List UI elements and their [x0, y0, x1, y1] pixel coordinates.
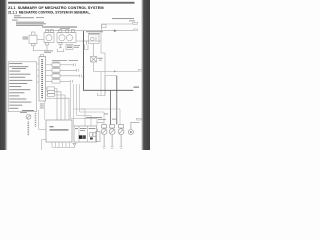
- wire G end label: [133, 22, 138, 24]
- left page-edge shadow bar: [0, 0, 8, 150]
- solenoid block labels (greeked): [75, 127, 78, 130]
- junction dot on dark wire: [83, 40, 85, 42]
- svg-text:21.1.1 MECHATRO CONTROL SYSTE: 21.1.1 MECHATRO CONTROL SYSTEM IN GENERA…: [8, 11, 91, 15]
- paragraph text block (greeked): [12, 15, 46, 26]
- wire C end label: [138, 69, 142, 71]
- accel dial label (greeked): [22, 110, 34, 111]
- outline top tab: [102, 24, 106, 27]
- controller bottom exit wires: [52, 142, 75, 147]
- attachment boost valve label (greeked): [86, 31, 103, 32]
- C-1 label: [50, 126, 54, 127]
- wire: top rail above pumps: [46, 30, 102, 32]
- pressure sensor SE-2: [109, 125, 115, 146]
- wire A label: [137, 118, 142, 120]
- wire from regulator to P1 sensor rail: [76, 40, 101, 42]
- top header rule: [8, 2, 135, 4]
- wire E end label: [134, 86, 140, 88]
- solenoid spool black segment 1: [79, 135, 83, 139]
- wire tall box bottom to controller box: [44, 101, 46, 120]
- pump P1 (left pump unit): [44, 30, 54, 45]
- svg-text:21.1 SUMMARY OF MECHATRO CONT: 21.1 SUMMARY OF MECHATRO CONTROL SYSTEM: [8, 6, 104, 10]
- wire engine-speed line with arrow: [102, 30, 134, 32]
- valve tank cup: [85, 45, 88, 50]
- pressure sensor SE-4 with wire A: [128, 122, 139, 134]
- tick marks on dark wire: [82, 66, 84, 78]
- controller output row 7: [46, 94, 65, 120]
- governor motor label (greeked): [23, 37, 29, 38]
- solenoid valve block: [74, 126, 97, 142]
- page background: [0, 0, 150, 150]
- pump regulator block: [66, 45, 80, 50]
- pressure sensor SE-1: [101, 125, 107, 146]
- controller output row 8: [46, 98, 69, 120]
- label B with arrow: [98, 58, 103, 59]
- pump drain to tank symbol: [57, 45, 64, 52]
- HI-LO changeover label (greeked): [86, 117, 102, 118]
- controller output row 5: [46, 87, 57, 120]
- engine speed wire end label: [134, 29, 138, 31]
- wire G horizontal to right: [102, 24, 133, 31]
- PSV valve row 2: [46, 69, 79, 73]
- label under tall box (greeked): [40, 104, 44, 109]
- mechatro controller input list box: [8, 62, 37, 112]
- label row above pump rail (greeked): [42, 26, 77, 27]
- proportional valve title label (greeked): [52, 59, 67, 62]
- tandem pump P2 unit: [57, 30, 76, 45]
- controller lower-left wire to page bottom: [42, 140, 46, 150]
- arrowhead on engine speed line: [114, 29, 117, 32]
- mechatro controller tall column box: [39, 57, 46, 102]
- accel dial: [26, 114, 31, 119]
- mechatro controller main box C-1: [46, 120, 72, 142]
- dark wire: pump pressure line down and right: [84, 31, 134, 90]
- dark sensor drop wires: [110, 90, 112, 124]
- controller left input wire: [39, 110, 46, 130]
- vertical label inside column (greeked): [41, 59, 43, 98]
- low pressure sensor feed box: [96, 123, 104, 142]
- pilot shut-off component: [91, 56, 97, 62]
- pressure sensor SE-3: [118, 125, 124, 146]
- machine outline step: [98, 31, 106, 96]
- sensor drain marks: [103, 147, 123, 148]
- solenoid right cell small boxes: [90, 133, 93, 137]
- tank funnel symbol: [73, 143, 76, 147]
- engine speed output label (top right, greeked): [112, 18, 134, 19]
- wire D nested corner: [101, 71, 117, 95]
- governor motor unit (top left): [29, 32, 47, 51]
- right page-edge shadow bar: [141, 0, 150, 150]
- controller output row 6: [46, 90, 61, 120]
- wire bundle valve drops: [71, 83, 121, 126]
- solenoid block dividers: [79, 126, 88, 142]
- drop to pilot component: [93, 43, 95, 56]
- MECHATRO CONTROLLER label (greeked): [50, 129, 69, 130]
- PSV valve row 1: [46, 63, 76, 67]
- wire vertical label near controller (greeked): [35, 113, 36, 127]
- solenoid spool black segment 2: [83, 135, 86, 139]
- PSV valve row 3: [46, 74, 82, 78]
- pump P1 sub-label (greeked): [44, 50, 53, 51]
- attachment boost valve: [85, 35, 99, 57]
- input list rows (greeked): [9, 63, 32, 109]
- accel dial vertical label (greeked): [28, 122, 30, 136]
- P1 P2 sensor labels (greeked): [104, 113, 108, 116]
- column top tab: [41, 54, 44, 56]
- solenoid right black mark: [90, 138, 93, 140]
- wire C: pilot line to right edge: [94, 62, 139, 71]
- connectors list box to controller column: [37, 64, 39, 82]
- PSV valve row 4: [46, 80, 73, 84]
